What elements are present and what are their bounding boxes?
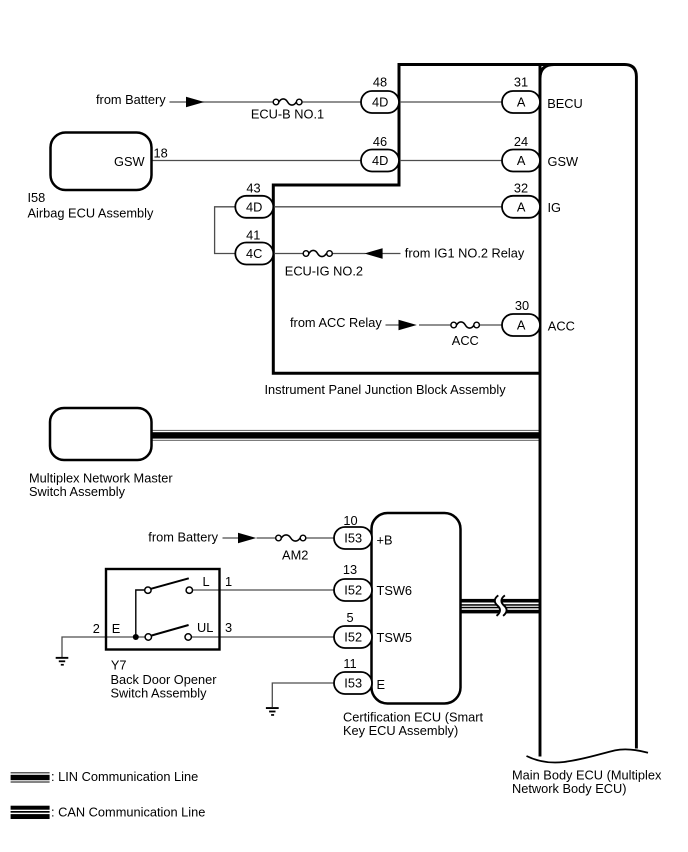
svg-text:I58: I58 [28,190,46,205]
wire: row BECU inside junction block 4D to A [398,101,504,103]
switch L blade [150,578,189,589]
multiplex network master switch assembly box [50,408,152,460]
svg-text:Instrument Panel Junction Bloc: Instrument Panel Junction Block Assembly [265,382,507,397]
wire: row ACC arrow to fuse to A [386,324,505,326]
back door opener switch assembly box Y7 [106,569,220,650]
svg-text:I53: I53 [344,676,362,691]
switch internal wiring: stub and vertical link [136,590,145,637]
svg-text:3: 3 [225,620,232,635]
svg-text:A: A [517,95,526,110]
svg-text:IG: IG [548,200,562,215]
wire: row BECU fuse to connector 4D [301,101,363,103]
svg-text:2: 2 [93,621,100,636]
wire: row ECU-IG fuse leads [274,253,401,255]
svg-text:A: A [517,153,526,168]
switch L output contact [186,587,192,593]
svg-text:GSW: GSW [548,154,579,169]
switch UL blade [150,625,189,636]
svg-text:from Battery: from Battery [96,92,166,107]
svg-text:AM2: AM2 [282,547,308,562]
arrow from Battery (lower) [238,533,256,544]
svg-text:4D: 4D [372,153,388,168]
wire: TSW5 row switch to I52 [191,636,336,638]
wire: row IG 4D to A [274,206,505,208]
svg-text:I52: I52 [344,630,362,645]
svg-text:10: 10 [343,513,357,528]
junction node on E line [133,634,139,640]
svg-text:UL: UL [197,620,213,635]
svg-text:Airbag ECU Assembly: Airbag ECU Assembly [28,206,154,221]
svg-text:E: E [377,677,386,692]
svg-text:: LIN Communication Line: : LIN Communication Line [51,769,198,784]
svg-text:TSW6: TSW6 [377,583,413,598]
instrument panel junction block assembly outline [273,65,556,374]
svg-text:4C: 4C [246,246,262,261]
svg-text:Y7: Y7 [111,657,127,672]
connector I52 pin 5 [334,626,372,648]
svg-text:Switch Assembly: Switch Assembly [111,685,208,700]
svg-text:24: 24 [514,134,528,149]
svg-text:32: 32 [514,181,528,196]
svg-text:Network Body ECU): Network Body ECU) [512,781,627,796]
connector A pin 31 [502,91,540,113]
fuse ACC [451,322,480,328]
svg-text:from IG1 NO.2 Relay: from IG1 NO.2 Relay [405,245,525,260]
switch UL pivot contact [145,634,151,640]
svg-text:43: 43 [246,181,260,196]
certification ECU (smart key ECU assembly) box [372,513,461,704]
svg-text:TSW5: TSW5 [377,630,413,645]
connector I53 pin 10 [334,527,372,549]
fuse AM2 [276,535,306,541]
svg-text:A: A [517,199,526,214]
wire: TSW6 row switch to I52 [193,589,337,591]
wire: bracket joining 4D(43) and 4C(41) [215,207,237,254]
svg-text:GSW: GSW [114,154,145,169]
arrow from Battery (top) [186,97,204,108]
arrow from IG1 NO.2 Relay (points left) [364,248,382,259]
connector A pin 32 [502,196,540,218]
connector A pin 24 [502,150,540,172]
fuse ECU-B NO.1 [273,99,302,105]
svg-text:ACC: ACC [452,333,479,348]
connector 4D pin 48 [361,91,399,113]
ground (back door opener switch) [56,657,69,666]
ground (certification ECU E) [266,707,279,716]
svg-text:5: 5 [346,610,353,625]
wire: row BECU from battery arrow to fuse [170,101,275,103]
legend CAN communication line symbol [11,806,50,819]
legend LIN communication line symbol [11,772,50,782]
svg-text:4D: 4D [246,199,262,214]
svg-text:L: L [203,574,210,589]
arrow from ACC Relay [399,320,417,331]
CAN communication line certification ECU to main body ECU [459,599,541,613]
svg-text:48: 48 [373,74,387,89]
CAN line break symbol [495,595,507,616]
svg-text:: CAN Communication Line: : CAN Communication Line [51,804,205,819]
connector 4C pin 41 [235,243,273,265]
svg-text:+B: +B [377,533,393,548]
connector I53 pin 11 [334,672,372,694]
fuse ECU-IG NO.2 [303,250,332,256]
connector 4D pin 46 [361,150,399,172]
wire: lower from Battery to fuse AM2 to I53 [223,537,337,539]
svg-text:11: 11 [343,656,356,671]
svg-text:30: 30 [515,298,529,313]
svg-text:ACC: ACC [548,318,575,333]
svg-text:from ACC Relay: from ACC Relay [290,315,382,330]
svg-text:31: 31 [514,74,528,89]
wire: switch E row to ground [62,637,145,657]
svg-text:13: 13 [343,562,357,577]
svg-text:I52: I52 [344,583,362,598]
svg-text:A: A [517,318,526,333]
svg-text:4D: 4D [372,95,388,110]
svg-text:I53: I53 [344,531,362,546]
svg-text:18: 18 [154,146,168,161]
svg-text:1: 1 [225,574,232,589]
svg-text:ECU-IG NO.2: ECU-IG NO.2 [285,264,363,279]
wire: row GSW inside junction block [398,160,504,162]
switch UL output contact [185,634,191,640]
svg-text:from Battery: from Battery [148,530,218,545]
wire: E row ground to I53 [272,683,336,707]
wire: row GSW airbag to 4D [152,160,364,162]
svg-text:BECU: BECU [547,96,583,111]
svg-text:41: 41 [246,228,260,243]
connector I52 pin 13 [334,579,372,601]
main body ECU (multiplex network body ECU) block [540,65,636,757]
switch L pivot contact [145,587,151,593]
main body ECU torn bottom edge [527,749,649,762]
svg-text:Switch Assembly: Switch Assembly [29,484,126,499]
connector A pin 30 [502,314,540,336]
svg-text:46: 46 [373,134,387,149]
svg-text:Key ECU Assembly): Key ECU Assembly) [343,723,458,738]
airbag ECU assembly box I58 [51,133,152,191]
svg-text:ECU-B NO.1: ECU-B NO.1 [251,106,324,121]
svg-text:E: E [112,621,121,636]
connector 4D pin 43 [235,196,273,218]
LIN communication line multiplex switch to main body ECU [152,430,541,441]
